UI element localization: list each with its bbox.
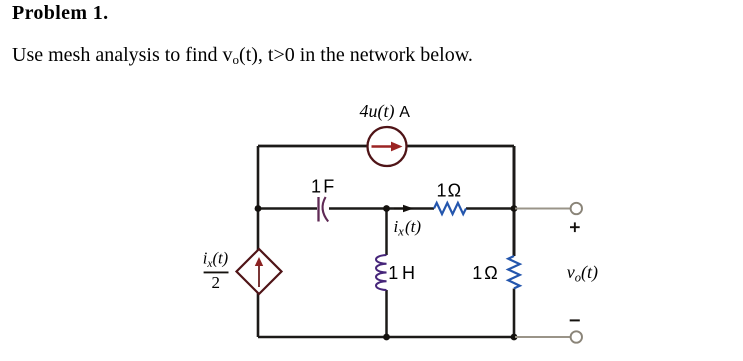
current arrow ix(t) [394, 205, 414, 213]
label vo(t) [567, 262, 598, 285]
label 1 ohm top [437, 181, 462, 201]
svg-text:vo(t): vo(t) [567, 262, 598, 285]
current source I1 4u(t) A [368, 127, 407, 166]
node bottom center junction dot [383, 334, 390, 341]
svg-text:4u(t): 4u(t) [360, 101, 395, 122]
node center junction dot [383, 205, 390, 212]
svg-text:1: 1 [388, 263, 398, 283]
node right junction dot [511, 205, 518, 212]
terminal top [571, 203, 582, 214]
svg-text:1: 1 [311, 176, 321, 196]
wire top rail [258, 145, 514, 148]
wire middle rail left segment [258, 207, 317, 209]
wire center vertical [385, 209, 388, 338]
resistor R2 1ohm vertical [508, 256, 520, 288]
svg-text:Ω: Ω [448, 181, 461, 201]
svg-text:H: H [402, 263, 415, 283]
resistor R1 1ohm horizontal [434, 203, 466, 214]
node bottom right junction dot [511, 334, 518, 341]
label minus [570, 319, 580, 321]
label plus [570, 222, 580, 232]
wire middle rail right segment [329, 207, 514, 209]
svg-text:ix(t): ix(t) [394, 217, 422, 239]
wire output lead bottom [515, 336, 571, 338]
svg-text:A: A [399, 104, 410, 121]
svg-text:1: 1 [437, 181, 447, 201]
label 1F [311, 176, 334, 196]
wire output lead top [515, 208, 571, 210]
svg-text:F: F [323, 176, 334, 196]
svg-text:ix(t): ix(t) [203, 248, 228, 269]
label 4u(t) A [360, 101, 411, 122]
inductor L1 1H [376, 255, 387, 290]
label 1H [388, 263, 415, 283]
node left junction dot [255, 205, 262, 212]
wire right vertical [513, 146, 516, 337]
svg-text:2: 2 [212, 273, 221, 292]
label 1 ohm right [472, 263, 498, 283]
label ix(t)/2 fraction [203, 248, 229, 292]
svg-text:1: 1 [472, 263, 482, 283]
wire bottom rail [258, 336, 514, 339]
capacitor C1 1F [319, 197, 329, 222]
wire left vertical [257, 146, 260, 337]
svg-text:Ω: Ω [484, 263, 497, 283]
label ix(t) [394, 217, 422, 239]
terminal bottom [571, 331, 582, 342]
dependent source D1 ix/2 diamond [237, 249, 282, 294]
